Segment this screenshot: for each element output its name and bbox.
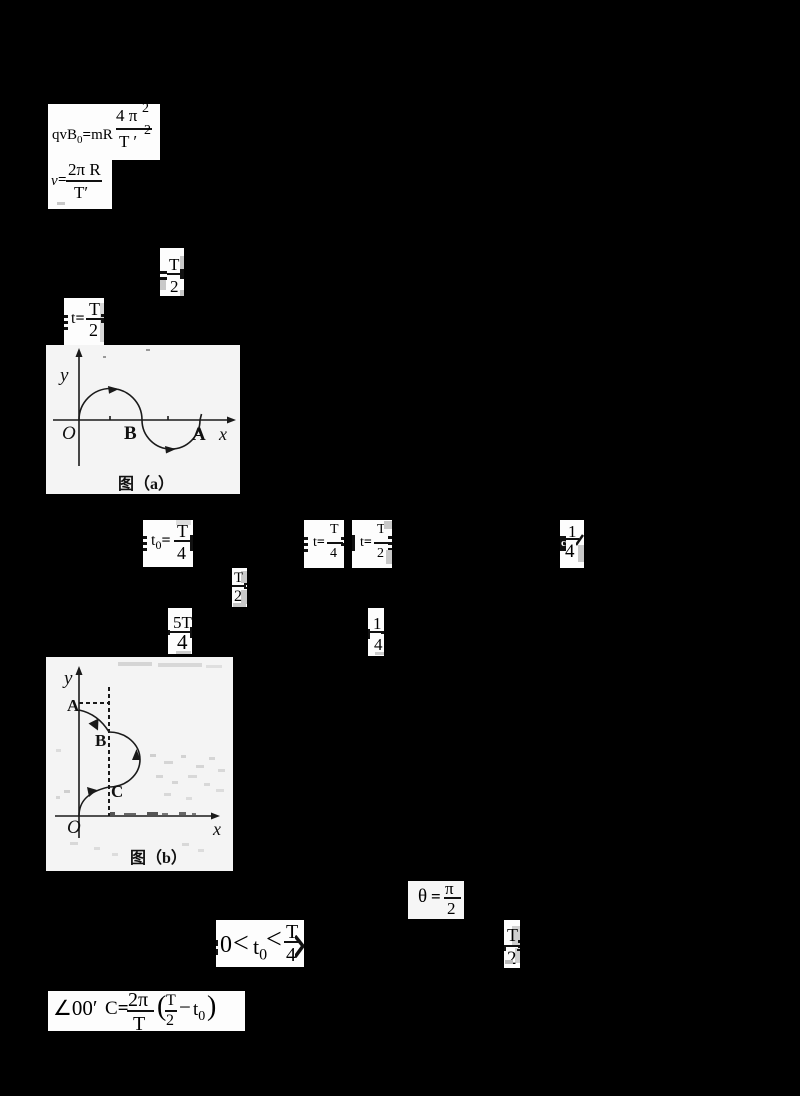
svg-text:A: A (67, 696, 80, 715)
svg-text:C: C (111, 782, 123, 801)
svg-text:B: B (95, 731, 106, 750)
svg-text:A: A (192, 424, 206, 445)
svg-text:O: O (62, 423, 76, 444)
svg-text:x: x (218, 424, 227, 444)
svg-text:y: y (62, 668, 73, 689)
svg-text:B: B (124, 423, 137, 444)
svg-text:x: x (212, 819, 221, 839)
svg-text:O: O (67, 817, 81, 838)
svg-text:y: y (58, 365, 69, 386)
svg-text:图（b）: 图（b） (130, 849, 187, 867)
svg-text:图（a）: 图（a） (118, 475, 174, 493)
